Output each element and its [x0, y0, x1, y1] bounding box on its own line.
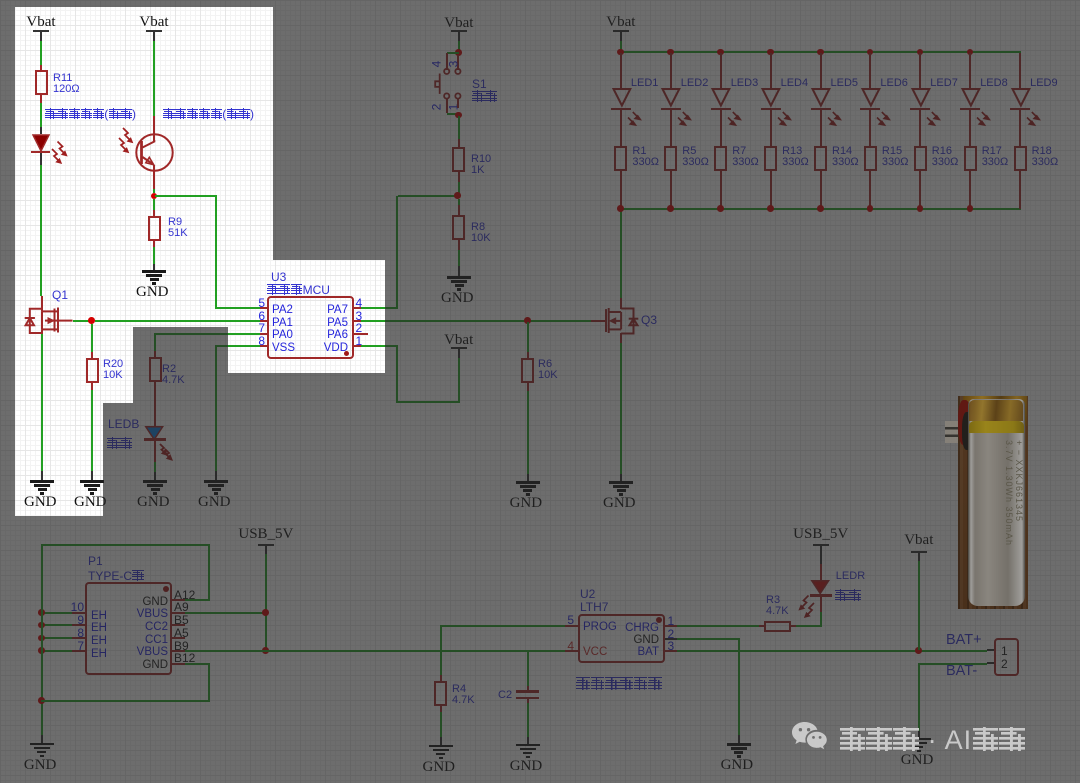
power flag USB_5V (LEDR)	[791, 525, 851, 543]
ground (R9)	[142, 269, 166, 271]
wire node to R6	[527, 322, 529, 352]
P1 pin 9 EH	[72, 624, 85, 626]
node S1 top	[455, 49, 462, 56]
ground (Q1)	[30, 479, 54, 481]
ground (P1)	[30, 742, 54, 744]
P1 pin B5 CC2	[172, 624, 185, 626]
wire S1 to R10	[458, 116, 460, 139]
U3 pin 2 PA6 (no wire)	[354, 333, 368, 335]
resistor R16	[914, 146, 927, 171]
P1 pin B12 GND	[172, 663, 185, 665]
wire P1 pin 7 to shield net	[41, 650, 72, 652]
power flag Vbat (battery)	[899, 531, 939, 549]
LED LED3 column	[717, 49, 724, 56]
resistor R6	[521, 358, 534, 383]
wire B9 VBUS to U2 VCC (net USB_5V)	[185, 650, 565, 652]
P1 pin 10 EH	[72, 612, 85, 614]
SCHEMATIC	[0, 0, 1080, 1]
wire P1 GND loop (A12 top)	[41, 544, 210, 546]
resistor R18	[1014, 146, 1027, 171]
wire Vbat to phototransistor	[153, 41, 155, 116]
wire LEDR anode to USB_5V	[820, 564, 822, 580]
node label BAT-	[946, 666, 977, 677]
LED LED6 column	[867, 49, 874, 56]
wire PA0 (pin7) to R2	[154, 333, 260, 335]
U3 pin 8 VSS	[260, 345, 267, 347]
op-amp U3 MCU box	[267, 296, 354, 359]
wire IR LED to Q1 drain	[40, 153, 42, 165]
LED LED2 column	[667, 49, 674, 56]
resistor R17	[964, 146, 977, 171]
power flag Vbat (VDD)	[439, 331, 479, 349]
node label BAT+	[946, 635, 982, 646]
wire P1 pin 10 to shield net	[41, 612, 72, 614]
wire R6 to GND	[527, 383, 529, 391]
P1 pin A5 CC1	[172, 637, 185, 639]
wire VSS (pin8) to GND	[215, 345, 260, 347]
ground (Q3)	[609, 480, 633, 482]
U3 pin 3 PA5	[354, 320, 361, 322]
watermark text 公众号 · AI电堂	[839, 726, 1026, 754]
wire node to R9	[153, 199, 155, 210]
wire Q1 source to GND	[41, 334, 43, 471]
wire P1 B12 loop	[185, 663, 210, 665]
resistor R14	[814, 146, 827, 171]
comment 红外发射管（透明）	[45, 108, 136, 120]
power flag USB_5V (P1)	[236, 525, 296, 543]
watermark wechat icon	[791, 721, 833, 757]
overlay mask	[0, 0, 1080, 1]
wire VDD (pin1) to Vbat	[361, 345, 398, 347]
U2 pin 4 VCC (red)	[565, 650, 577, 652]
wire VCC node to C2	[527, 652, 529, 686]
resistor R8	[452, 215, 465, 240]
wire node to R8	[458, 199, 460, 205]
wire CHRG to R3	[677, 625, 759, 627]
switch S1	[447, 52, 459, 54]
U3 pin 1 VDD	[354, 345, 361, 347]
wire LED top bus	[620, 51, 1021, 53]
LED LED9 column	[1019, 53, 1021, 88]
P1 pin B9 VBUS	[172, 650, 185, 652]
U3 pin 6 PA1	[260, 320, 267, 322]
wire USB_5V to VBUS pins	[265, 554, 267, 651]
wire P1 pin 9 to shield net	[41, 624, 72, 626]
node Vbat/BAT+	[915, 647, 922, 654]
P1 pin A9 VBUS	[172, 612, 185, 614]
node USB_5V / B9 / VCC	[262, 647, 269, 654]
resistor R5	[664, 146, 677, 171]
IR emitter LED (filled)	[32, 134, 52, 154]
wire Vbat to S1	[458, 41, 460, 50]
ground (battery)	[907, 737, 931, 739]
connector P1 TYPE-C box	[85, 582, 172, 675]
node R6 tap	[524, 317, 531, 324]
wire PA7 (pin4) to R10/R8 node	[361, 307, 398, 309]
resistor R20	[86, 358, 99, 383]
P1 pin A12 GND	[172, 599, 185, 601]
wire Q3 drain up to LED bus	[620, 298, 622, 309]
ground (R4)	[429, 744, 453, 746]
resistor R9	[148, 216, 161, 241]
wire PA5 (pin3) to Q3 gate	[361, 320, 591, 322]
resistor R13	[764, 146, 777, 171]
capacitor C2	[516, 690, 539, 693]
wire node to R20	[91, 324, 93, 352]
wire Vbat to LED bus	[620, 41, 622, 52]
ground (R8)	[447, 275, 471, 277]
node S1 bottom	[455, 112, 462, 119]
transistor Q3	[591, 320, 607, 322]
IC U2 LTH7 box	[578, 614, 665, 664]
wire R3 to LEDR	[791, 625, 796, 627]
wire Q1 gate to node	[73, 320, 89, 322]
wire R10 to node	[458, 172, 460, 182]
resistor R3	[764, 621, 791, 632]
wire Q3 source to GND	[620, 333, 622, 343]
wire phototransistor emitter to node	[153, 165, 155, 189]
resistor R15	[864, 146, 877, 171]
LED LED7 column	[917, 49, 924, 56]
LED LED8 column	[967, 49, 974, 56]
resistor R7	[714, 146, 727, 171]
photo lithium battery	[958, 396, 1029, 609]
LED LED4 column	[767, 49, 774, 56]
wire R20 to GND	[91, 383, 93, 390]
wire R8 to GND	[458, 240, 460, 250]
wire R2 to LEDB	[154, 382, 156, 426]
wire A9 VBUS to USB_5V	[185, 612, 265, 614]
LED LEDB (blue)	[145, 426, 165, 442]
wire P1 left shield vertical to GND	[41, 546, 43, 735]
node R10/R8/PA7	[454, 192, 461, 199]
ground (R6)	[516, 480, 540, 482]
U2 pin 5 PROG	[565, 625, 577, 627]
wire R9 to GND	[153, 241, 155, 248]
LED LEDR (red)	[811, 580, 831, 596]
power flag Vbat (LED bus)	[601, 13, 641, 31]
wire node to PA1 (pin6)	[95, 320, 260, 322]
ground (U2)	[727, 742, 751, 744]
U3 pin 4 PA7	[354, 307, 361, 309]
U2 pin 3 BAT	[665, 650, 677, 652]
resistor R11	[35, 70, 48, 95]
IR reception arrows	[117, 126, 141, 156]
IR phototransistor (receiver)	[135, 133, 175, 173]
node R9/PA2 junction	[151, 193, 158, 200]
resistor R2	[149, 357, 162, 382]
power flag Vbat (IR emitter branch)	[21, 13, 61, 31]
wire BAT to battery connector	[677, 650, 987, 652]
U2 pin 2 GND	[665, 638, 677, 640]
resistor R1	[614, 146, 627, 171]
LED LED5 column	[817, 49, 824, 56]
wire LED bottom bus	[620, 208, 1021, 210]
power flag Vbat (IR receiver branch)	[134, 13, 174, 31]
ground (C2)	[516, 743, 540, 745]
P1 pin 8 EH	[72, 637, 85, 639]
wire C2 to GND	[527, 699, 529, 703]
wire Vbat to R11	[40, 41, 42, 65]
wire LEDB to GND	[154, 441, 156, 462]
comment 红外接收管（黑色）	[163, 108, 254, 120]
wire U2 GND to ground	[677, 638, 740, 640]
wire R11 to IR LED	[40, 95, 42, 103]
ground (LEDB)	[143, 479, 167, 481]
U3 pin 5 PA2	[260, 307, 267, 309]
U2 pin 1 CHRG	[665, 625, 677, 627]
P1 pin 7 EH	[72, 650, 85, 652]
resistor R10	[452, 147, 465, 172]
connector battery plug box	[994, 638, 1019, 676]
transistor Q1	[52, 290, 68, 301]
wire R4 to GND	[440, 706, 442, 712]
IR emission arrows	[51, 140, 73, 166]
U3 pin 7 PA0	[260, 333, 267, 335]
power flag Vbat (S1 branch)	[439, 14, 479, 32]
LED LED1 column	[617, 49, 624, 56]
ground (VSS)	[204, 479, 228, 481]
node Q1/R20/PA1	[88, 317, 95, 324]
wire BAT- to GND	[918, 663, 987, 665]
ground (R20)	[80, 479, 104, 481]
wire PROG to R4	[440, 625, 566, 627]
wire P1 pin 8 to shield net	[41, 637, 72, 639]
wire node to PA2 (pin5)	[155, 195, 216, 197]
resistor R4	[434, 681, 447, 706]
